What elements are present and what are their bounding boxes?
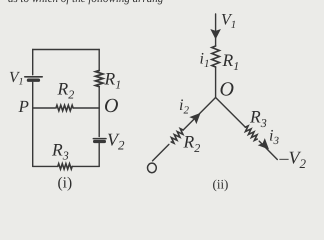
wire left side upper fig(i) xyxy=(32,50,34,75)
svg-text:(i): (i) xyxy=(58,175,73,192)
svg-text:O: O xyxy=(104,95,118,117)
current arrow i2 (toward node O) xyxy=(190,111,202,123)
battery V1 xyxy=(25,77,42,80)
wire right diagonal lower segment xyxy=(259,141,277,159)
battery V2 xyxy=(93,139,106,142)
wire bottom right segment fig(i) xyxy=(73,165,99,167)
resistor R1 (fig i) xyxy=(96,71,103,87)
wire right side lower fig(i) xyxy=(98,143,100,166)
resistor R3 (fig ii) xyxy=(243,125,259,141)
current arrow i1 (down) xyxy=(211,30,220,39)
terminal circle o xyxy=(148,163,157,173)
svg-text:as to which of the following a: as to which of the following arrang xyxy=(8,0,164,5)
wire right diagonal branch (node O toward -V2) xyxy=(216,98,246,128)
resistor R2 (fig ii) xyxy=(169,128,185,144)
wire vertical lower segment to node O xyxy=(215,67,217,98)
wire middle P-O right segment xyxy=(74,107,100,109)
wire left diagonal lower segment xyxy=(153,144,169,161)
resistor R2 (fig i) xyxy=(56,105,73,111)
wire bottom left segment fig(i) xyxy=(33,165,58,167)
faint cropped text line at top xyxy=(8,0,164,5)
svg-text:P: P xyxy=(18,97,29,116)
svg-text:O: O xyxy=(220,79,234,101)
resistor R3 (fig i) xyxy=(58,164,72,169)
resistor R1 (fig ii) xyxy=(212,46,220,67)
wire right side middle fig(i) xyxy=(98,87,100,137)
svg-text:(ii): (ii) xyxy=(213,176,229,191)
current arrow i3 (away from node) xyxy=(259,139,271,151)
wire vertical top branch fig(ii) xyxy=(215,14,217,46)
wire right side upper fig(i) xyxy=(98,50,100,71)
wire top side fig(i) xyxy=(33,49,100,51)
wire left diagonal branch (node O to terminal o) xyxy=(183,98,215,131)
wire left side lower fig(i) xyxy=(32,82,34,166)
wire middle P-O left segment xyxy=(33,107,55,109)
